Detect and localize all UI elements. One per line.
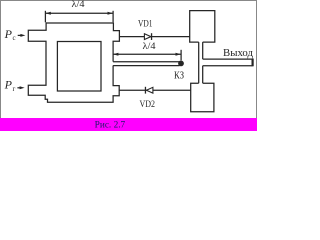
KZ short circle <box>178 61 184 67</box>
svg-text:Выход: Выход <box>223 47 253 59</box>
svg-text:с: с <box>13 34 16 42</box>
arrow P_g shaft <box>17 87 21 89</box>
ring coupler outline left/bottom part <box>28 22 119 102</box>
magenta caption bar <box>0 118 257 131</box>
svg-text:λ/4: λ/4 <box>143 41 157 51</box>
svg-text:г: г <box>13 85 16 93</box>
narrow stub left edge <box>198 42 200 83</box>
wire VD2 (to bottom patch) <box>119 89 191 91</box>
white background <box>0 0 257 131</box>
bottom patch rectangle <box>191 83 214 112</box>
dimension 2 extension line right <box>180 50 182 61</box>
wire VD1 (to top patch) <box>119 36 189 38</box>
narrow stub right edge upper <box>202 42 204 59</box>
frame border of figure area <box>1 1 257 119</box>
svg-text:Рис. 2.7: Рис. 2.7 <box>95 119 126 129</box>
P_g arrowhead <box>20 86 25 89</box>
top patch rectangle <box>190 11 215 42</box>
diode VD2 (pointing left, outlined) <box>146 87 153 93</box>
inner square (slot of ring) <box>57 42 101 92</box>
arrow P_c shaft <box>18 34 22 36</box>
svg-text:P: P <box>4 78 13 92</box>
diode VD1 (pointing right, outlined) <box>144 34 151 40</box>
dim2 right arrowhead <box>176 53 181 56</box>
dim2 left arrowhead <box>113 53 118 56</box>
svg-text:КЗ: КЗ <box>174 70 184 81</box>
dim1 right arrowhead <box>108 12 113 15</box>
svg-text:λ/4: λ/4 <box>72 0 86 9</box>
output line bottom edge <box>203 65 253 67</box>
KZ shorted stub line bottom edge <box>113 65 179 67</box>
dimension 1 extension line left <box>44 11 46 22</box>
output line top edge <box>203 58 253 60</box>
svg-text:VD2: VD2 <box>140 100 156 110</box>
output line closed end <box>252 59 254 67</box>
KZ shorted stub line top edge <box>113 61 179 63</box>
narrow stub right edge lower <box>202 66 204 84</box>
dimension 1 extension line right <box>112 11 114 22</box>
ring coupler outline top/right part <box>46 23 119 62</box>
dimension 1 line <box>45 12 113 14</box>
svg-text:P: P <box>4 27 13 41</box>
dim1 left arrowhead <box>45 12 50 15</box>
dimension 2 line <box>113 53 181 55</box>
svg-text:VD1: VD1 <box>138 20 153 30</box>
P_c arrowhead <box>20 34 25 37</box>
